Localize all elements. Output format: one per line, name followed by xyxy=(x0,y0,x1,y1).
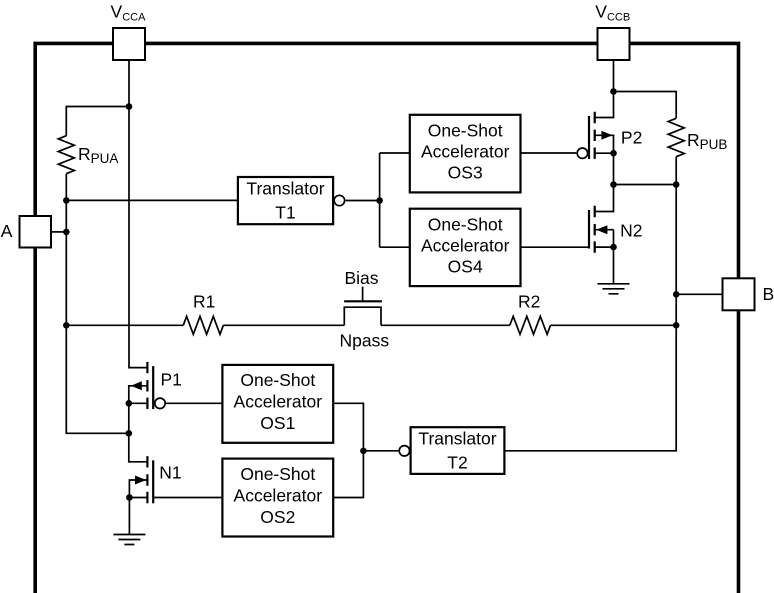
wire: P1 source stub xyxy=(129,402,148,404)
junction: T1 output node xyxy=(376,197,383,204)
svg-text:OS1: OS1 xyxy=(260,413,295,433)
wire: T1 output to OS3/OS4 inputs xyxy=(346,153,410,247)
svg-text:Bias: Bias xyxy=(345,268,379,288)
svg-text:T1: T1 xyxy=(275,203,295,223)
svg-text:VCCB: VCCB xyxy=(595,2,630,24)
transistor N1 channel xyxy=(146,456,148,503)
junction: node A / R1 xyxy=(63,322,70,329)
translator T2 box xyxy=(411,427,505,474)
svg-text:Accelerator: Accelerator xyxy=(421,142,510,162)
svg-text:One-Shot: One-Shot xyxy=(240,370,315,390)
wire: N2 body line xyxy=(595,229,614,231)
svg-text:Accelerator: Accelerator xyxy=(234,485,323,505)
svg-text:Translator: Translator xyxy=(246,179,324,199)
inverter bubble at T2 input xyxy=(399,446,409,456)
wire: RPUB bottom lead xyxy=(675,157,677,185)
junction: P1 source on rail xyxy=(126,400,133,407)
svg-text:P2: P2 xyxy=(621,127,642,147)
junction: node B at RPUB bottom xyxy=(673,181,680,188)
body arrow of P1 xyxy=(131,381,142,390)
resistor RPUA xyxy=(58,136,74,174)
wire: P1 gate bubble to OS1 input xyxy=(166,402,222,404)
junction: node A / terminal A stub xyxy=(63,229,70,236)
svg-text:VCCA: VCCA xyxy=(111,2,147,24)
svg-text:One-Shot: One-Shot xyxy=(240,464,315,484)
svg-text:OS2: OS2 xyxy=(260,507,295,527)
wire: VCCB down to P2 drain xyxy=(595,60,614,118)
wire: P1 body and source rail down to N1 drain xyxy=(129,386,148,462)
svg-text:RPUB: RPUB xyxy=(687,130,727,152)
body arrow of P2 xyxy=(601,131,612,140)
junction: N1 source xyxy=(126,494,133,501)
transistor Npass channel and leads xyxy=(344,307,381,325)
wire: P2 body and source rail down to N2 drain xyxy=(595,135,614,211)
svg-text:OS3: OS3 xyxy=(448,163,483,183)
svg-text:T2: T2 xyxy=(447,453,467,473)
svg-text:Accelerator: Accelerator xyxy=(234,392,323,412)
resistor R1 xyxy=(183,316,223,334)
junction: node A / T1 input xyxy=(63,197,70,204)
io terminal A xyxy=(20,216,52,248)
translator T1 box xyxy=(238,177,333,224)
junction: VCCB branch to RPUB xyxy=(610,88,617,95)
one-shot OS2 box xyxy=(222,459,333,537)
inverter bubble at P2 gate xyxy=(577,148,587,158)
wire: R1 to Npass xyxy=(223,324,344,326)
body arrow of N2 xyxy=(596,225,607,234)
svg-text:R1: R1 xyxy=(193,292,215,312)
wire: RPUA bottom lead to node A rail xyxy=(65,174,67,201)
transistor N2 channel xyxy=(594,206,596,253)
svg-text:OS4: OS4 xyxy=(448,256,483,276)
wire: N1 source stub xyxy=(129,497,147,499)
wire: OS output node to T2 bubble xyxy=(363,450,398,452)
wire: OS3 output to P2 gate bubble xyxy=(521,152,577,154)
wire: Npass to R2 xyxy=(381,324,510,326)
wire: node A to translator T1 input xyxy=(66,199,238,201)
transistor P1 gate xyxy=(152,366,154,409)
io terminal B xyxy=(723,278,755,310)
svg-text:N1: N1 xyxy=(159,462,181,482)
svg-text:A: A xyxy=(1,221,13,241)
body arrow of N1 xyxy=(135,476,146,485)
svg-text:P1: P1 xyxy=(161,370,182,390)
wire: node B horizontal to RPUB bottom xyxy=(614,184,677,186)
transistor N2 gate xyxy=(588,210,590,249)
wire: VCCB branch to RPUB top xyxy=(614,92,677,119)
junction: P2 source on rail xyxy=(610,150,617,157)
svg-text:One-Shot: One-Shot xyxy=(428,214,503,234)
junction: node B / terminal B stub xyxy=(673,291,680,298)
one-shot OS3 box xyxy=(410,115,521,193)
transistor N1 gate xyxy=(152,460,154,503)
transistor P2 channel xyxy=(594,112,596,159)
svg-text:One-Shot: One-Shot xyxy=(428,121,503,141)
wire: N1 body line and ground lead xyxy=(129,480,147,535)
resistor R2 xyxy=(510,316,551,334)
junction: node A rail joins P1 source rail xyxy=(126,430,133,437)
wire: N2 source stub and ground lead xyxy=(595,230,614,284)
junction: node B / R2 xyxy=(673,322,680,329)
wire: node A to R1 xyxy=(66,324,183,326)
wire: N1 gate to OS2 input xyxy=(153,497,222,499)
power terminal VCCA xyxy=(113,28,145,60)
ground symbol at N1 xyxy=(113,535,145,545)
wire: P2 source stub xyxy=(595,152,614,154)
wire: VCCA branch to RPUA top xyxy=(66,107,129,136)
transistor Npass gate plate xyxy=(344,300,382,302)
node A rail: vertical down to P1/N1 column xyxy=(66,200,129,433)
transistor P2 gate xyxy=(588,116,590,159)
wire: terminal B stub xyxy=(676,293,722,295)
svg-text:B: B xyxy=(763,284,774,304)
wire: Npass gate lead from Bias xyxy=(362,287,364,302)
wire: terminal A stub xyxy=(51,231,66,233)
inverter bubble at P1 gate xyxy=(155,398,165,408)
junction: OS1/OS2 output node xyxy=(360,448,367,455)
transistor P1 channel xyxy=(146,362,148,409)
svg-text:Npass: Npass xyxy=(340,330,390,350)
power terminal VCCB xyxy=(598,28,630,60)
junction: N2 source xyxy=(610,244,617,251)
svg-text:R2: R2 xyxy=(518,292,540,312)
inverter bubble at T1 output xyxy=(334,195,344,205)
resistor RPUB xyxy=(668,118,684,156)
svg-text:RPUA: RPUA xyxy=(78,144,118,166)
wire: node B vertical rail down to T2 output xyxy=(504,185,676,451)
wire: R2 to node B xyxy=(551,324,677,326)
junction: VCCA branch xyxy=(126,103,133,110)
ground symbol at N2 xyxy=(598,284,630,294)
wire: OS1 and OS2 outputs joined xyxy=(333,403,363,497)
one-shot OS1 box xyxy=(222,365,333,443)
one-shot OS4 box xyxy=(410,209,521,286)
svg-text:Accelerator: Accelerator xyxy=(421,235,510,255)
wire: OS4 output to N2 gate xyxy=(521,246,589,248)
svg-text:N2: N2 xyxy=(620,221,642,241)
wire: VCCA down to P1 drain xyxy=(129,60,147,368)
svg-text:Translator: Translator xyxy=(418,429,496,449)
junction: node B at P2 rail xyxy=(610,181,617,188)
